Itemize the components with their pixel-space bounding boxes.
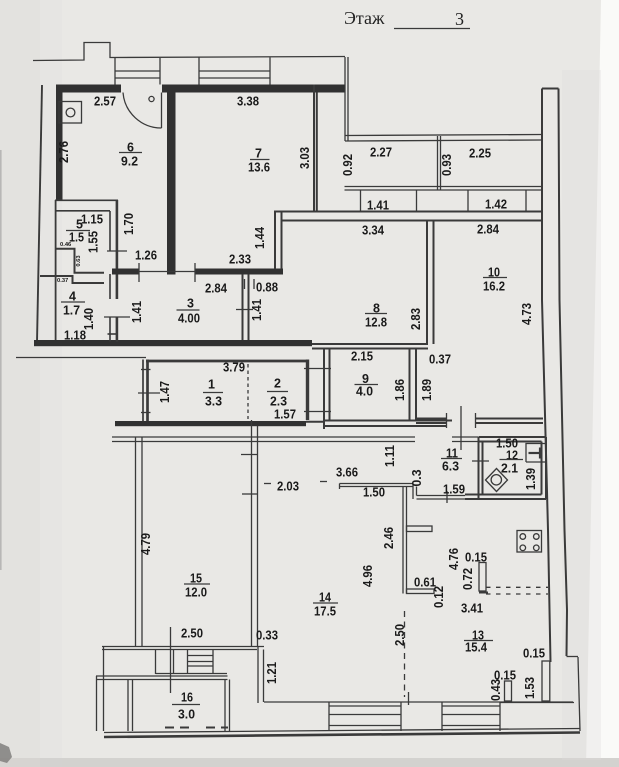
balcony divider	[438, 136, 441, 190]
svg-text:Этаж: Этаж	[344, 8, 385, 28]
svg-text:4.79: 4.79	[139, 533, 153, 555]
svg-text:2.03: 2.03	[277, 480, 299, 494]
rooms5/4 left wall	[55, 200, 57, 342]
svg-text:6.3: 6.3	[442, 460, 459, 474]
svg-text:0.72: 0.72	[461, 568, 475, 590]
kitchen dashes	[486, 586, 548, 588]
svg-text:15.4: 15.4	[465, 641, 487, 655]
right white scan strip	[586, 0, 619, 767]
room13 right wall stubs	[500, 661, 574, 703]
svg-text:1: 1	[208, 378, 215, 392]
room number labels	[61, 141, 523, 722]
svg-text:1.41: 1.41	[250, 299, 264, 321]
bottom windows	[329, 702, 500, 731]
svg-text:3: 3	[455, 9, 464, 29]
svg-text:2.33: 2.33	[229, 253, 251, 267]
rooms 8/10 top wall	[274, 212, 542, 221]
tick left wall rooms1/2	[138, 392, 160, 394]
svg-text:2.3: 2.3	[270, 395, 287, 409]
left scan edge line	[0, 150, 2, 570]
left margin shading	[0, 0, 40, 767]
svg-text:2.83: 2.83	[409, 308, 423, 330]
towel rail T room12	[526, 444, 546, 463]
svg-text:4.73: 4.73	[520, 303, 534, 325]
room10 bottom wall A	[416, 419, 543, 424]
svg-text:1.57: 1.57	[274, 408, 296, 422]
sink diamond room12	[486, 469, 508, 492]
svg-text:3.3: 3.3	[205, 395, 222, 409]
svg-text:1.40: 1.40	[82, 308, 96, 330]
svg-text:4.76: 4.76	[447, 548, 461, 570]
room7 step wall	[275, 211, 282, 269]
kitchen pier room13	[479, 563, 486, 592]
svg-text:3.79: 3.79	[223, 361, 245, 375]
svg-text:1.44: 1.44	[253, 227, 267, 249]
left outer boundary line	[37, 85, 42, 342]
svg-text:5: 5	[76, 218, 83, 232]
svg-text:13.6: 13.6	[248, 161, 270, 175]
svg-text:1.55: 1.55	[87, 231, 101, 253]
section line	[170, 627, 172, 693]
svg-text:12.0: 12.0	[185, 586, 207, 600]
room9 walls	[306, 344, 452, 429]
corridor top wall	[112, 269, 139, 275]
svg-text:4.00: 4.00	[178, 312, 200, 326]
svg-text:1.26: 1.26	[135, 249, 157, 263]
svg-text:12: 12	[506, 449, 518, 463]
svg-text:0.12: 0.12	[432, 586, 446, 608]
svg-text:2.76: 2.76	[57, 141, 71, 163]
svg-text:16.2: 16.2	[483, 280, 505, 294]
svg-text:1.70: 1.70	[122, 213, 136, 235]
svg-text:3: 3	[187, 297, 194, 311]
top wall band rooms 6-7	[56, 85, 121, 93]
svg-text:1.41: 1.41	[367, 199, 389, 213]
svg-text:1.42: 1.42	[485, 198, 507, 212]
svg-text:3.66: 3.66	[336, 466, 358, 480]
thin double wall y437-441	[112, 437, 478, 442]
room6 left wall	[56, 85, 63, 201]
bottom outer wall	[104, 729, 580, 733]
window room7 top	[199, 58, 270, 85]
svg-text:1.5: 1.5	[69, 231, 84, 245]
texts horizontal dims	[57, 95, 545, 683]
outer top outline with chimney	[33, 43, 345, 61]
svg-text:3.41: 3.41	[461, 602, 483, 616]
svg-text:2.84: 2.84	[205, 282, 227, 296]
wall rooms6/7 divider	[167, 93, 176, 275]
window room6 top	[115, 58, 160, 85]
svg-text:4.0: 4.0	[356, 385, 373, 399]
svg-text:0.15: 0.15	[523, 647, 545, 661]
room6 bottom wall (top of 5)	[55, 199, 118, 201]
room12 walls	[465, 437, 546, 499]
svg-text:3.34: 3.34	[362, 224, 384, 238]
svg-text:1.89: 1.89	[420, 379, 434, 401]
washbasin room6	[59, 102, 82, 124]
svg-text:0.88: 0.88	[256, 281, 278, 295]
stove room13	[517, 531, 542, 553]
room3 right wall (double)	[243, 274, 249, 340]
svg-text:2.15: 2.15	[351, 350, 373, 364]
room7 right wall	[314, 85, 317, 212]
svg-text:4.96: 4.96	[361, 565, 375, 587]
cells below balcony	[361, 190, 527, 212]
door arc room6	[123, 93, 162, 129]
svg-text:1.15: 1.15	[81, 213, 103, 227]
door ticks corridor	[138, 263, 140, 282]
svg-text:0.92: 0.92	[341, 154, 355, 176]
svg-text:0.37: 0.37	[429, 353, 451, 367]
svg-text:0.33: 0.33	[256, 629, 278, 643]
svg-text:7: 7	[255, 147, 262, 161]
svg-text:9.2: 9.2	[121, 155, 138, 169]
svg-text:0.93: 0.93	[440, 154, 454, 176]
svg-text:1.11: 1.11	[383, 445, 397, 467]
right wall lower extension	[578, 657, 580, 731]
dashed divider rooms1/2	[247, 364, 249, 419]
divider rooms13/14	[403, 487, 434, 594]
svg-text:0.15: 0.15	[465, 551, 487, 565]
texts vertical dims	[57, 141, 538, 701]
balcony left wall	[345, 57, 348, 141]
svg-text:1.21: 1.21	[265, 662, 279, 684]
2.03 dashes	[264, 483, 271, 485]
svg-text:1.86: 1.86	[393, 379, 407, 401]
svg-text:2.57: 2.57	[94, 95, 116, 109]
svg-text:0.37: 0.37	[57, 278, 68, 284]
svg-text:1.7: 1.7	[63, 304, 80, 318]
room10 left wall	[427, 221, 434, 345]
door tick room4	[104, 316, 130, 318]
svg-text:3.0: 3.0	[178, 708, 195, 722]
bottom thick wall upper block	[34, 340, 312, 346]
svg-text:0.3: 0.3	[410, 469, 424, 486]
svg-text:1.47: 1.47	[158, 381, 172, 403]
svg-text:3.38: 3.38	[237, 95, 259, 109]
right margin shading	[562, 70, 601, 760]
svg-text:2.84: 2.84	[477, 223, 499, 237]
room16 door dashes	[165, 727, 193, 729]
svg-text:16: 16	[181, 691, 193, 705]
rooms1/2 block	[146, 360, 309, 363]
svg-text:1.39: 1.39	[524, 468, 538, 490]
room16 walls	[96, 647, 230, 731]
svg-text:3.03: 3.03	[298, 147, 312, 169]
svg-text:0.63: 0.63	[76, 255, 82, 267]
svg-text:2.50: 2.50	[181, 627, 203, 641]
svg-text:2: 2	[274, 377, 281, 391]
balcony parapet top	[345, 135, 542, 142]
room15 bottom walls	[102, 647, 264, 704]
svg-text:12.8: 12.8	[365, 316, 387, 330]
svg-text:2.46: 2.46	[382, 527, 396, 549]
svg-text:1.50: 1.50	[363, 486, 385, 500]
room5 notch walls	[40, 249, 104, 283]
right outer wall	[542, 89, 567, 663]
stair/vent block	[156, 650, 228, 675]
room15 walls	[136, 420, 259, 646]
svg-text:0.43: 0.43	[489, 679, 503, 701]
svg-text:1.53: 1.53	[523, 677, 537, 699]
rooms5/4 right wall x108-117	[116, 200, 119, 299]
balcony bottom wall	[345, 187, 542, 191]
svg-text:2.50: 2.50	[393, 624, 407, 646]
svg-text:2.27: 2.27	[370, 146, 392, 160]
svg-text:17.5: 17.5	[314, 605, 336, 619]
svg-text:2.1: 2.1	[501, 462, 518, 476]
svg-text:2.25: 2.25	[469, 147, 491, 161]
svg-text:1.59: 1.59	[443, 483, 465, 497]
svg-text:1.41: 1.41	[130, 301, 144, 323]
door tick room5	[107, 250, 127, 252]
bottom wing top wall	[264, 701, 573, 703]
room11 bottom walls	[340, 484, 466, 500]
bottom-left scan smudge	[0, 743, 12, 763]
bottom scan shade	[0, 758, 619, 767]
